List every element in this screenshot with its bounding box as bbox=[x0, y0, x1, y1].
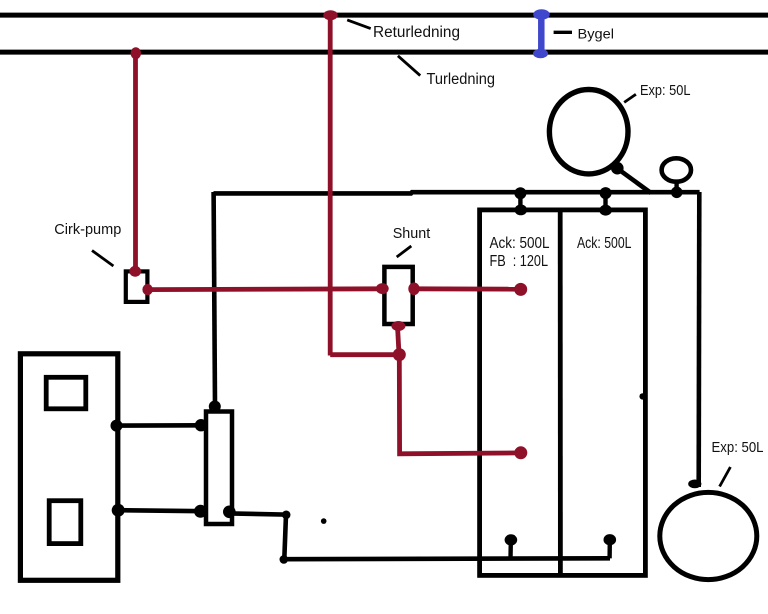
pointer Bygel bbox=[554, 31, 572, 34]
svg-text:Shunt: Shunt bbox=[393, 225, 431, 242]
red dot at pump right bbox=[142, 284, 152, 295]
pointer Returledning bbox=[347, 20, 371, 29]
red stub from shunt bottom bbox=[398, 326, 400, 354]
tank top stub 1 bbox=[518, 193, 522, 210]
svg-text:Bygel: Bygel bbox=[578, 27, 615, 42]
tank Ack outer box bbox=[480, 210, 646, 576]
boiler lower inner rectangle bbox=[49, 501, 81, 544]
shunt rectangle bbox=[384, 267, 412, 324]
tank bottom stub 2 bbox=[607, 542, 612, 558]
red end dot at tank lower port bbox=[514, 446, 527, 459]
svg-text:Ack: 500L: Ack: 500L bbox=[577, 235, 632, 252]
pointer Exp top bbox=[624, 94, 636, 102]
red dot at shunt bottom bbox=[391, 321, 405, 331]
wire boiler to valve (upper) bbox=[118, 423, 204, 428]
red riser B (from second pipe to pump) bbox=[133, 53, 138, 270]
expansion vessel bottom (Exp 50L) circle bbox=[660, 492, 757, 579]
junction dot valve lower-left bbox=[194, 505, 207, 518]
red wire shunt to tank upper port bbox=[413, 286, 519, 291]
red return riser A (from top pipe) bbox=[328, 15, 333, 356]
wire boiler to valve (lower) bbox=[120, 510, 204, 511]
wire main loop right vertical bbox=[696, 192, 701, 487]
svg-text:Cirk-pump: Cirk-pump bbox=[54, 221, 121, 238]
svg-text:Turledning: Turledning bbox=[427, 71, 496, 88]
circulation pump rectangle bbox=[126, 271, 148, 302]
junction dot boiler upper bbox=[111, 420, 123, 432]
red junction dot bbox=[393, 348, 406, 361]
tank divider line bbox=[558, 212, 563, 573]
red wire pump to shunt bbox=[148, 286, 381, 292]
wire main loop left vertical bbox=[214, 192, 215, 406]
stem of small circle bbox=[674, 184, 678, 193]
boiler outer box bbox=[20, 354, 117, 581]
tank top stub 2 bbox=[603, 193, 607, 211]
pointer Turledning bbox=[398, 56, 420, 76]
junction dot corner upper bbox=[282, 511, 291, 520]
red dot at riser A top bbox=[323, 10, 337, 20]
red dot at shunt left bbox=[376, 283, 389, 294]
junction dot corner lower bbox=[280, 555, 289, 564]
svg-text:Ack: 500L: Ack: 500L bbox=[490, 235, 550, 252]
wire main loop top (black) bbox=[214, 192, 700, 193]
pointer Shunt bbox=[397, 246, 412, 257]
stray mark dot bbox=[321, 518, 327, 524]
svg-text:Exp: 50L: Exp: 50L bbox=[712, 439, 764, 456]
junction dot valve upper-left bbox=[195, 419, 207, 431]
junction dot valve lower-right bbox=[223, 506, 236, 519]
boiler upper inner rectangle bbox=[46, 377, 86, 409]
pointer Cirk-pump bbox=[92, 251, 113, 267]
safety valve small circle bbox=[662, 158, 691, 181]
red elbow to tank lower port bbox=[330, 355, 519, 454]
junction dot on vessel bbox=[611, 162, 624, 175]
bygel (blue jumper) bbox=[538, 14, 545, 54]
pipe Returledning (top supply line) bbox=[0, 13, 768, 18]
wire diagonal from top vessel to loop bbox=[616, 168, 651, 194]
tank bottom stub 1 bbox=[508, 542, 513, 559]
pointer Exp bottom bbox=[720, 467, 731, 487]
junction dot at bottom vessel top bbox=[688, 480, 701, 489]
wire valve to tank bottom bbox=[229, 513, 610, 559]
red dot at pump top bbox=[129, 266, 141, 277]
red end dot at tank upper port bbox=[514, 283, 527, 296]
red dot at riser B top bbox=[131, 47, 141, 59]
svg-text:Returledning: Returledning bbox=[373, 24, 460, 41]
junction dot boiler lower bbox=[112, 504, 125, 517]
svg-text:FB : 120L: FB : 120L bbox=[490, 253, 549, 270]
pipe Turledning (second line) bbox=[0, 50, 768, 55]
junction dot at stem base bbox=[671, 187, 683, 199]
valve (laddomat) rectangle bbox=[206, 412, 232, 525]
notch mark on tank right edge bbox=[639, 393, 645, 399]
red dot at shunt right bbox=[408, 283, 419, 296]
junction dot at valve top bbox=[209, 401, 221, 413]
expansion vessel top (Exp 50L) circle bbox=[549, 90, 628, 174]
svg-text:Exp: 50L: Exp: 50L bbox=[640, 82, 691, 99]
